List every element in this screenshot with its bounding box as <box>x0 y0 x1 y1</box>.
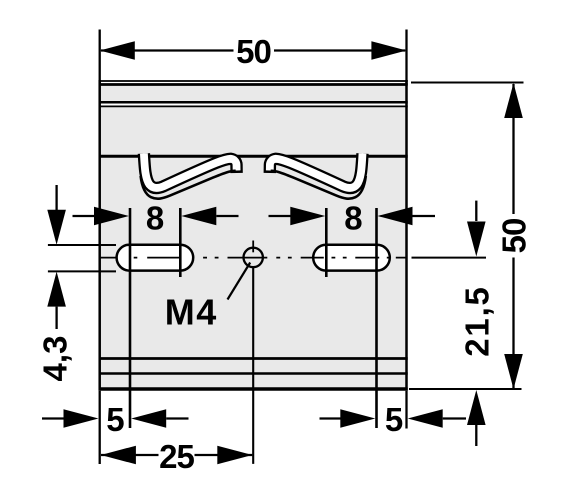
body right edge <box>405 80 408 391</box>
left hook outer bottom edge line <box>141 171 236 199</box>
slot extension line x=376.5 long <box>375 208 378 428</box>
svg-text:5: 5 <box>106 401 124 438</box>
bottom left dim 5 right arrow <box>131 409 166 428</box>
rail ledge thick line <box>99 155 408 158</box>
bottom left dim 5 left arrow tail <box>42 417 64 419</box>
lower line 2 <box>99 372 408 375</box>
top dim 50 extension left <box>99 30 101 86</box>
bottom left extension body edge <box>99 391 101 464</box>
M4 tapped hole circle <box>244 248 263 267</box>
svg-text:8: 8 <box>146 199 164 236</box>
top dim 50 line right segment <box>274 49 405 51</box>
groove upper line <box>99 101 408 104</box>
dim 21,5 bottom arrow <box>467 390 486 425</box>
dim 21,5 top arrow tail <box>475 201 477 221</box>
svg-text:25: 25 <box>159 438 194 475</box>
vertical centerline below hole <box>252 267 254 464</box>
horizontal centerline <box>99 257 407 259</box>
svg-text:21,5: 21,5 <box>458 285 495 356</box>
bottom right dim 5 left arrow tail <box>320 417 342 419</box>
dim 25 right arrow <box>217 446 252 465</box>
bottom left dim 5 left arrow <box>64 409 99 428</box>
svg-text:M4: M4 <box>165 292 218 333</box>
dim 4,3 bottom arrow tail <box>55 307 57 329</box>
groove lower line <box>99 105 408 107</box>
M4 leader line <box>228 263 251 300</box>
second groove white strip <box>99 104 408 106</box>
slot extension line x=180.3 <box>179 208 182 277</box>
svg-text:4,3: 4,3 <box>37 336 74 382</box>
bottom right dim 5 left arrow <box>340 409 375 428</box>
lower line 1 <box>99 357 408 360</box>
right spring clip hook <box>270 154 366 199</box>
slot extension line x=326.3 <box>325 208 328 277</box>
svg-text:50: 50 <box>236 33 271 70</box>
right dim 8 left arrow tail <box>269 215 292 217</box>
right dim 50 top arrow <box>504 83 523 118</box>
body bottom thick edge <box>99 387 408 391</box>
top dim 50 left arrow <box>100 41 135 60</box>
slot extension line x=130 long <box>129 208 132 428</box>
bottom right dim 5 right arrow <box>408 409 443 428</box>
svg-text:50: 50 <box>496 219 533 254</box>
body left edge <box>98 80 101 391</box>
left slot <box>117 245 194 271</box>
left dim 8 right arrow <box>181 207 216 226</box>
dim 4,3 bottom arrow <box>47 272 66 307</box>
right dim 50 line top segment <box>512 84 514 214</box>
bottom right extension body edge <box>405 391 407 429</box>
body top thin edge line <box>99 80 408 82</box>
dim 25 left arrow <box>101 446 136 465</box>
left dim 8 left arrow tail <box>73 215 96 217</box>
dim 21,5 bottom arrow tail <box>475 425 477 446</box>
vertical centerline above hole <box>252 241 254 253</box>
top groove white strip <box>99 82 408 83</box>
dim 4,3 extension bottom <box>48 270 116 272</box>
left dim 8 left arrow <box>94 207 129 226</box>
right dim 50 line bottom segment <box>512 258 514 389</box>
dim 25 line right segment <box>195 454 253 456</box>
right slot <box>313 245 390 271</box>
dim 4,3 extension top <box>48 244 116 246</box>
right dim 50 extension bottom <box>409 388 522 390</box>
dim 21,5 top arrow <box>467 222 486 257</box>
right dim 8 right arrow <box>378 207 413 226</box>
left dim 8 right arrow tail <box>216 215 238 217</box>
centerline extension right <box>412 257 487 259</box>
right dim 50 extension top <box>411 82 524 84</box>
body plate fill <box>99 80 408 391</box>
bottom right dim 5 right arrow tail <box>443 417 466 419</box>
left spring clip hook <box>141 154 237 199</box>
body top thick line <box>99 83 408 86</box>
bottom left dim 5 right arrow tail <box>166 417 188 419</box>
right dim 8 right arrow tail <box>413 215 436 217</box>
dim 25 line left segment <box>101 454 159 456</box>
top dim 50 line left segment <box>101 49 234 51</box>
svg-text:8: 8 <box>344 199 362 236</box>
dim 4,3 top arrow <box>47 210 66 245</box>
right dim 8 left arrow <box>290 207 325 226</box>
right hook outer bottom edge line <box>271 171 366 199</box>
dim 4,3 top arrow tail <box>55 185 57 211</box>
right dim 50 bottom arrow <box>504 354 523 389</box>
top dim 50 right arrow <box>371 41 406 60</box>
top dim 50 extension right <box>405 30 407 86</box>
svg-text:5: 5 <box>385 401 403 438</box>
